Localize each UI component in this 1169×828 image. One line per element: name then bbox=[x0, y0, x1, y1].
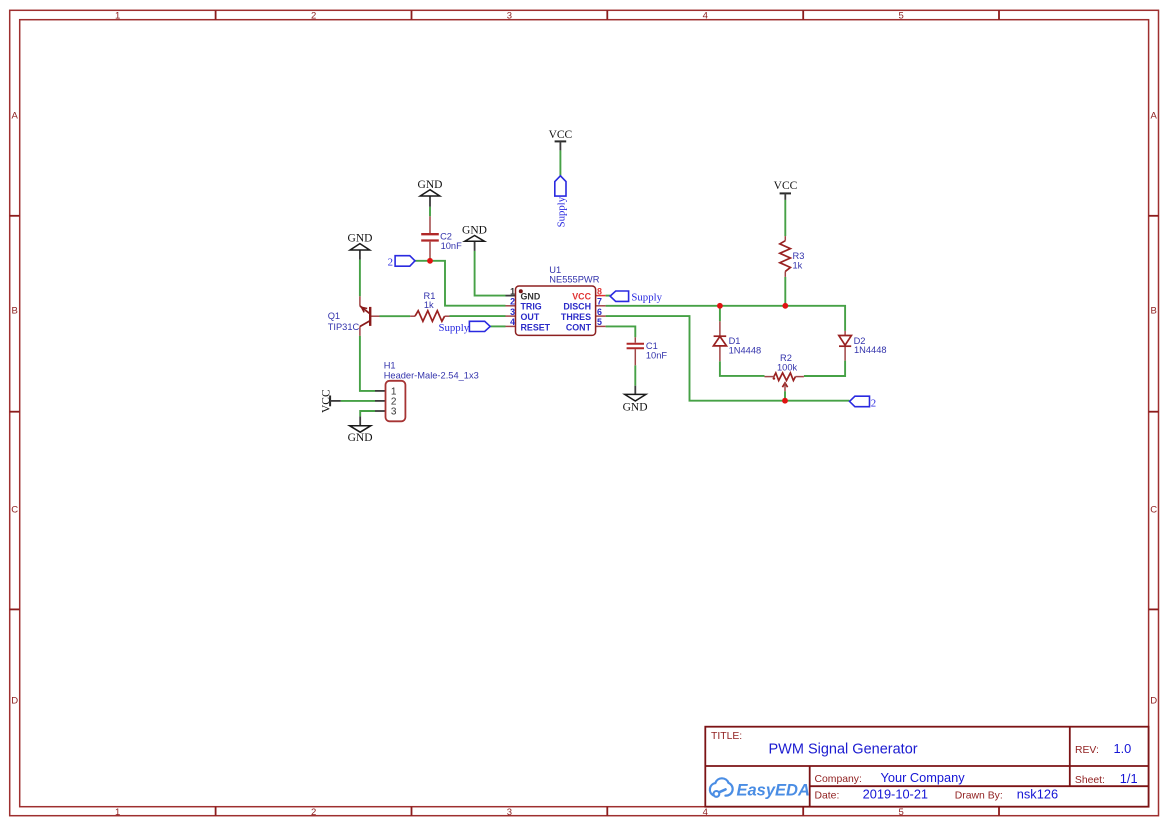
svg-text:C1: C1 bbox=[646, 341, 658, 351]
svg-text:GND: GND bbox=[623, 402, 648, 414]
svg-text:B: B bbox=[12, 305, 18, 316]
svg-text:3: 3 bbox=[507, 11, 512, 22]
svg-text:1/1: 1/1 bbox=[1120, 771, 1138, 786]
svg-text:CONT: CONT bbox=[566, 322, 592, 332]
svg-text:7: 7 bbox=[597, 297, 602, 307]
svg-text:Supply: Supply bbox=[631, 291, 662, 303]
svg-text:Header-Male-2.54_1x3: Header-Male-2.54_1x3 bbox=[384, 371, 479, 381]
svg-text:1N4448: 1N4448 bbox=[854, 345, 887, 355]
svg-text:1N4448: 1N4448 bbox=[729, 346, 762, 356]
svg-text:A: A bbox=[1151, 111, 1158, 122]
svg-text:TRIG: TRIG bbox=[521, 302, 542, 312]
svg-text:GND: GND bbox=[348, 432, 373, 444]
svg-text:Q1: Q1 bbox=[328, 311, 340, 321]
svg-text:D: D bbox=[11, 696, 18, 707]
svg-text:VCC: VCC bbox=[320, 389, 332, 413]
svg-text:VCC: VCC bbox=[572, 291, 591, 301]
svg-text:OUT: OUT bbox=[521, 312, 540, 322]
svg-text:Supply: Supply bbox=[439, 322, 470, 334]
svg-text:Drawn By:: Drawn By: bbox=[955, 791, 1003, 802]
svg-text:H1: H1 bbox=[384, 360, 396, 370]
svg-text:PWM Signal Generator: PWM Signal Generator bbox=[769, 742, 918, 758]
svg-text:5: 5 bbox=[898, 807, 903, 818]
svg-text:GND: GND bbox=[348, 233, 373, 245]
svg-text:1.0: 1.0 bbox=[1114, 741, 1132, 756]
svg-text:Supply: Supply bbox=[555, 196, 567, 227]
svg-text:REV:: REV: bbox=[1075, 745, 1099, 756]
svg-text:4: 4 bbox=[510, 317, 515, 327]
svg-text:6: 6 bbox=[597, 307, 602, 317]
svg-text:D: D bbox=[1150, 696, 1157, 707]
svg-text:1k: 1k bbox=[793, 261, 803, 271]
svg-text:Your Company: Your Company bbox=[881, 770, 966, 785]
svg-text:1: 1 bbox=[115, 11, 120, 22]
svg-text:1: 1 bbox=[510, 286, 515, 296]
svg-text:GND: GND bbox=[521, 291, 541, 301]
svg-text:1: 1 bbox=[115, 807, 120, 818]
svg-text:GND: GND bbox=[418, 179, 443, 191]
svg-text:Date:: Date: bbox=[815, 791, 840, 802]
svg-text:C: C bbox=[11, 504, 18, 515]
svg-text:2: 2 bbox=[388, 257, 393, 269]
svg-text:2: 2 bbox=[311, 807, 316, 818]
svg-text:DISCH: DISCH bbox=[563, 302, 591, 312]
svg-text:5: 5 bbox=[898, 11, 903, 22]
svg-text:3: 3 bbox=[510, 307, 515, 317]
svg-text:C: C bbox=[1150, 504, 1157, 515]
svg-text:TIP31C: TIP31C bbox=[328, 322, 360, 332]
svg-text:5: 5 bbox=[597, 317, 602, 327]
svg-text:10nF: 10nF bbox=[646, 350, 668, 360]
svg-text:2019-10-21: 2019-10-21 bbox=[863, 787, 928, 802]
svg-text:THRES: THRES bbox=[561, 312, 591, 322]
svg-text:3: 3 bbox=[507, 807, 512, 818]
svg-text:EasyEDA: EasyEDA bbox=[737, 781, 810, 799]
svg-text:R3: R3 bbox=[793, 251, 805, 261]
svg-text:4: 4 bbox=[703, 807, 708, 818]
svg-text:1k: 1k bbox=[424, 300, 434, 310]
svg-text:GND: GND bbox=[462, 225, 487, 237]
svg-text:Company:: Company: bbox=[815, 774, 862, 785]
svg-text:VCC: VCC bbox=[774, 180, 798, 192]
svg-text:TITLE:: TITLE: bbox=[711, 731, 742, 742]
svg-text:nsk126: nsk126 bbox=[1017, 787, 1058, 802]
svg-text:2: 2 bbox=[871, 397, 876, 409]
svg-text:8: 8 bbox=[597, 286, 602, 296]
svg-text:4: 4 bbox=[703, 11, 708, 22]
svg-text:100k: 100k bbox=[777, 362, 798, 372]
svg-text:2: 2 bbox=[311, 11, 316, 22]
svg-text:RESET: RESET bbox=[521, 322, 551, 332]
svg-text:A: A bbox=[12, 111, 19, 122]
svg-text:10nF: 10nF bbox=[441, 241, 463, 251]
svg-text:NE555PWR: NE555PWR bbox=[549, 274, 599, 284]
svg-text:D1: D1 bbox=[729, 336, 741, 346]
svg-text:Sheet:: Sheet: bbox=[1075, 775, 1105, 786]
svg-text:B: B bbox=[1151, 305, 1157, 316]
svg-text:U1: U1 bbox=[549, 265, 561, 275]
svg-text:3: 3 bbox=[391, 407, 397, 418]
svg-text:2: 2 bbox=[510, 297, 515, 307]
svg-text:VCC: VCC bbox=[549, 129, 573, 141]
